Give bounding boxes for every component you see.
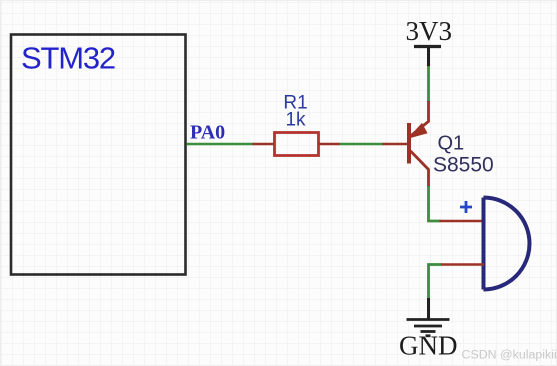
wire mid (green) [340, 143, 384, 146]
wire emitter vertical (dark red) [427, 101, 430, 122]
svg-text:STM32: STM32 [21, 41, 115, 76]
wire to ground (black) [427, 298, 430, 319]
buzzer LS1 [484, 198, 530, 290]
svg-text:S8550: S8550 [433, 154, 494, 177]
wire to base (dark red) [383, 143, 409, 146]
wire PA0 to R1 (green) [187, 143, 254, 146]
svg-text:PA0: PA0 [190, 122, 225, 144]
power 3V3 bar [414, 45, 441, 48]
resistor R1 body [275, 133, 319, 156]
wire collector vertical (dark red) [427, 169, 430, 187]
wire emitter vertical (green) [427, 66, 430, 102]
wire buzzer bottom (green elbow) [429, 265, 442, 300]
wire power stem (black) [427, 47, 430, 68]
MCU STM32 box [11, 35, 186, 275]
svg-text:3V3: 3V3 [406, 16, 453, 46]
ground symbol [407, 320, 450, 336]
svg-text:1k: 1k [285, 110, 306, 131]
wire R1 out (dark red) [319, 143, 341, 146]
transistor Q1 (PNP S8550) [409, 121, 429, 170]
svg-text:GND: GND [399, 331, 458, 361]
svg-text:CSDN @kulapikiira: CSDN @kulapikiira [462, 348, 557, 362]
wire into R1 (dark red) [253, 143, 275, 146]
wire collector vertical (green) [429, 186, 441, 221]
svg-text:Q1: Q1 [438, 133, 465, 155]
wire buzzer bottom (dark red) [440, 263, 484, 266]
plus sign [460, 201, 472, 213]
wire to buzzer plus (dark red) [440, 220, 485, 223]
